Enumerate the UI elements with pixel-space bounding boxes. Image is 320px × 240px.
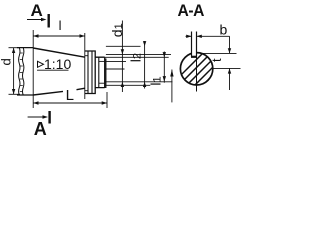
right ext E1 xyxy=(106,45,141,47)
circle vertical centerline xyxy=(196,57,198,92)
dim l1 vertical line xyxy=(163,52,165,83)
svg-text:A: A xyxy=(34,119,47,137)
break wavy line left xyxy=(19,48,20,95)
section mark top arrow xyxy=(27,19,45,21)
cone bottom edge xyxy=(33,88,85,95)
t dim upper arrow line xyxy=(229,36,231,53)
b left arrow xyxy=(186,35,191,38)
b dim line xyxy=(197,35,230,37)
end face line 2 xyxy=(105,59,107,89)
l2 arrows xyxy=(143,41,146,46)
keyway slot whiteout xyxy=(192,50,196,56)
b dim left arrow tail xyxy=(186,35,192,37)
svg-text:d: d xyxy=(0,58,14,65)
break texture ticks xyxy=(20,53,23,92)
dimension d extension bottom xyxy=(9,93,21,95)
A-A circle xyxy=(180,53,212,85)
dimension d extension top xyxy=(9,47,21,49)
extension line x33 xyxy=(32,30,34,108)
svg-text:L: L xyxy=(66,87,74,104)
right ext E4 xyxy=(105,60,126,62)
section top arrowhead xyxy=(41,18,47,21)
l1 arrows xyxy=(163,52,166,57)
right ext E3 xyxy=(105,56,169,58)
thread root top xyxy=(99,60,105,62)
taper underline xyxy=(37,69,69,71)
thread block xyxy=(95,57,105,87)
L dim arrows xyxy=(33,101,38,104)
collar inner line 2 xyxy=(91,51,93,94)
collar block xyxy=(85,51,95,94)
thread runout line xyxy=(98,57,100,87)
dimension L line xyxy=(33,102,107,104)
thread root bottom xyxy=(99,82,105,84)
b right arrow xyxy=(197,35,202,38)
right ext E5 axis xyxy=(105,68,125,70)
shaft body top edge xyxy=(17,47,33,49)
dimension l line xyxy=(33,35,85,37)
right ext E7 xyxy=(105,84,151,86)
l dim arrows xyxy=(33,34,38,37)
dim l2 vertical line xyxy=(144,41,146,89)
extension line x107 xyxy=(106,92,108,108)
d1 arrows xyxy=(121,49,124,54)
section bottom arrowhead xyxy=(43,115,49,118)
break wavy line right xyxy=(23,48,24,95)
keyway slot bottom xyxy=(191,56,197,58)
V4 arrow xyxy=(170,70,173,77)
keyway slot sides xyxy=(192,32,197,57)
t lower arrow xyxy=(228,68,231,73)
taper symbol triangle xyxy=(38,61,44,67)
end face line 1 xyxy=(104,57,106,88)
d dim arrows xyxy=(12,48,15,53)
collar step top xyxy=(85,55,88,57)
collar inner line 1 xyxy=(87,51,89,94)
svg-text:A-A: A-A xyxy=(178,1,205,20)
extension line x85 xyxy=(84,33,86,99)
svg-text:b: b xyxy=(220,21,228,37)
shaft body bottom edge xyxy=(17,94,33,96)
right ext E2 xyxy=(106,53,171,55)
dim d1 vertical line xyxy=(121,21,123,93)
V4 vertical line xyxy=(171,70,173,103)
cone top edge xyxy=(33,48,85,57)
svg-text:t: t xyxy=(209,58,224,62)
t lower ext xyxy=(213,67,241,69)
section mark bottom bar xyxy=(48,111,50,124)
svg-text:1:10: 1:10 xyxy=(44,56,71,72)
t dim lower arrow line xyxy=(229,68,231,90)
right ext E6 xyxy=(105,81,173,83)
t upper arrow xyxy=(228,48,231,53)
svg-text:A: A xyxy=(31,1,43,20)
section mark bottom arrow xyxy=(28,116,47,118)
svg-text:l: l xyxy=(59,18,62,33)
section mark top bar xyxy=(48,14,50,28)
t upper ext xyxy=(202,52,237,54)
collar step bottom xyxy=(85,90,88,92)
arrowheads xyxy=(12,18,231,119)
dimension d line xyxy=(13,48,15,95)
